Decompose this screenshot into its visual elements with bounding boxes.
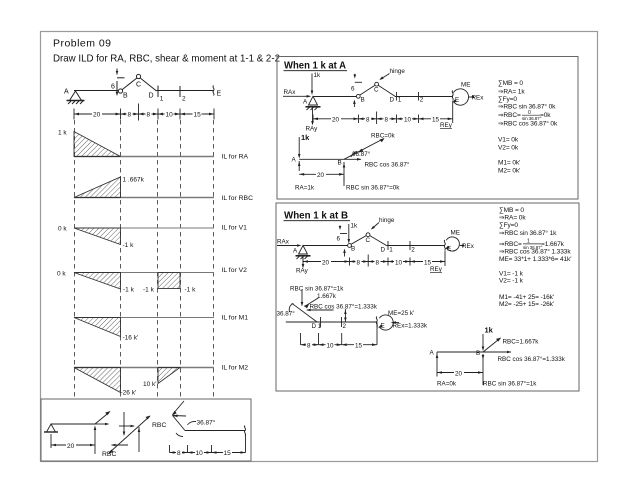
svg-text:⇒RBC=: ⇒RBC= (498, 112, 521, 119)
svg-text:∑Fy=0: ∑Fy=0 (498, 96, 517, 103)
lower free body (segment AB) (299, 137, 384, 186)
svg-text:When 1 k at B: When 1 k at B (284, 210, 348, 222)
svg-text:8: 8 (357, 259, 361, 266)
svg-text:6: 6 (337, 236, 341, 243)
svg-text:⇒RA= 0k: ⇒RA= 0k (499, 215, 526, 222)
svg-text:B: B (476, 350, 480, 357)
svg-text:20: 20 (93, 112, 101, 119)
svg-text:1k: 1k (314, 72, 322, 79)
link C-D (140, 78, 156, 91)
main dim labels (92, 111, 202, 119)
middle free body (segment D-E with link) (286, 290, 399, 345)
svg-text:∑MB = 0: ∑MB = 0 (499, 207, 524, 214)
hinge circle C (136, 74, 140, 78)
svg-text:36.87°: 36.87° (197, 419, 216, 427)
IL for RA (74, 156, 214, 158)
beam diagram (277, 223, 462, 268)
dim line (313, 118, 453, 120)
svg-text:E: E (455, 97, 459, 104)
hinge circle B (118, 89, 122, 93)
link B-C (122, 78, 137, 90)
svg-text:D: D (381, 247, 386, 254)
svg-text:M1= 0k': M1= 0k' (498, 160, 520, 167)
dim 6 lower arrow (116, 92, 119, 96)
svg-text:REx=1.333k: REx=1.333k (393, 323, 428, 330)
hinge circles (348, 244, 352, 248)
svg-text:0 k: 0 k (57, 271, 66, 278)
svg-text:RAx: RAx (284, 89, 297, 96)
fraction line: RBC = 1 / sin36.87 = 1.667k (499, 239, 565, 250)
1k load at B (348, 224, 350, 242)
1k load at A (311, 74, 313, 94)
FBD2 arrowheads (109, 416, 151, 454)
svg-text:RBC cos 36.87°: RBC cos 36.87° (365, 161, 410, 169)
bottom-right free body (segment AB) (437, 334, 511, 385)
svg-text:hinge: hinge (379, 217, 395, 224)
svg-text:RBC sin 36.87°=0k: RBC sin 36.87°=0k (346, 184, 400, 192)
svg-text:RBC cos 36.87°=1.333k: RBC cos 36.87°=1.333k (498, 355, 566, 363)
svg-text:A: A (64, 89, 69, 96)
REx arrow line (469, 96, 471, 98)
svg-text:V1= -1 k: V1= -1 k (499, 271, 524, 278)
svg-text:B: B (361, 97, 365, 104)
hinge leader (380, 74, 390, 80)
svg-text:V1= 0k: V1= 0k (498, 137, 519, 144)
svg-text:8: 8 (307, 343, 311, 350)
svg-text:REy: REy (430, 266, 443, 273)
hinge leader (372, 223, 380, 230)
svg-text:36.87°: 36.87° (277, 310, 296, 318)
svg-text:2: 2 (411, 247, 415, 254)
REx arrow line (460, 245, 462, 247)
svg-text:15: 15 (424, 259, 432, 266)
svg-text:8: 8 (147, 112, 151, 119)
svg-text:RAy: RAy (296, 268, 309, 275)
E squiggle (444, 240, 445, 250)
box2 beam labels (277, 217, 475, 275)
hinge circles (356, 94, 360, 98)
svg-text:10: 10 (395, 259, 403, 266)
box1 FBD labels (292, 133, 410, 192)
svg-text:B: B (351, 246, 355, 253)
svg-text:sin 36.87°: sin 36.87° (523, 245, 543, 250)
fixed-end squiggle at E (213, 86, 214, 96)
dim 6 (354, 74, 356, 77)
svg-text:⇒RA= 1k: ⇒RA= 1k (498, 89, 525, 96)
RAy arrow (302, 257, 304, 267)
dim 6 upper arrow (116, 71, 119, 75)
svg-text:1 k: 1 k (58, 130, 67, 137)
svg-text:hinge: hinge (390, 68, 406, 75)
REy extension (452, 101, 454, 123)
svg-text:IL for M2: IL for M2 (222, 365, 249, 372)
svg-text:RA=1k: RA=1k (295, 185, 315, 192)
svg-text:RBC sin 36.87°=1k: RBC sin 36.87°=1k (290, 285, 344, 293)
svg-text:IL for M1: IL for M1 (222, 315, 249, 322)
FBD1: left segment with pin (44, 413, 109, 455)
dashed construction lines (75, 120, 214, 398)
svg-text:-1 k: -1 k (185, 287, 197, 294)
svg-text:2: 2 (343, 323, 347, 330)
section ticks (387, 241, 389, 250)
svg-text:=1.667k: =1.667k (541, 241, 565, 248)
dim 6 (339, 226, 341, 229)
box1 beam labels (284, 68, 485, 133)
svg-text:RBC: RBC (102, 451, 116, 458)
svg-text:-26 k': -26 k' (121, 390, 137, 397)
svg-text:1k: 1k (485, 326, 494, 335)
svg-text:10: 10 (166, 112, 174, 119)
svg-text:RBC cos 36.87°=1.333k: RBC cos 36.87°=1.333k (310, 303, 378, 311)
svg-text:8: 8 (128, 112, 132, 119)
svg-text:sin 36.87°: sin 36.87° (522, 116, 542, 121)
svg-text:-16 k': -16 k' (123, 335, 139, 342)
svg-text:15: 15 (224, 450, 232, 457)
svg-text:8: 8 (366, 116, 370, 123)
svg-text:B: B (123, 93, 128, 100)
svg-text:RBC: RBC (152, 422, 166, 429)
box2 right-FBD arrowheads (436, 338, 512, 374)
svg-text:2: 2 (182, 96, 186, 103)
equations column box1 (498, 80, 558, 175)
main dim arrowheads (74, 113, 214, 116)
main dimension line (74, 104, 214, 121)
svg-text:M1= -41+ 25= -16k': M1= -41+ 25= -16k' (499, 294, 554, 301)
svg-text:-1 k: -1 k (123, 287, 135, 294)
RAx arrow (277, 245, 300, 247)
svg-text:M2= 0k': M2= 0k' (498, 168, 520, 175)
svg-text:8: 8 (177, 450, 181, 457)
dim line (303, 261, 445, 263)
svg-text:8: 8 (376, 259, 380, 266)
svg-text:0 k: 0 k (58, 226, 67, 233)
svg-text:15: 15 (355, 343, 363, 350)
svg-text:IL for V2: IL for V2 (222, 267, 248, 274)
fraction line: RBC = 0 / sin36.87 = 0k (498, 110, 551, 121)
svg-text:-1 k: -1 k (143, 287, 155, 294)
svg-text:6: 6 (351, 86, 355, 93)
svg-text:IL for RBC: IL for RBC (222, 195, 254, 202)
ME moment arc (453, 89, 468, 105)
support A (299, 246, 308, 255)
svg-text:20: 20 (322, 259, 330, 266)
beam diagram (283, 74, 471, 125)
box2 mid-FBD arrowheads (301, 302, 397, 346)
svg-text:M2= -25+ 15= -26k': M2= -25+ 15= -26k' (499, 301, 554, 308)
equations column box2 (499, 207, 571, 308)
svg-text:C: C (366, 237, 371, 244)
svg-text:Draw ILD for RA, RBC, shear &: Draw ILD for RA, RBC, shear & moment at … (53, 53, 280, 65)
box1 beam arrowheads (307, 75, 475, 126)
IL for M1 (74, 317, 214, 319)
svg-text:10: 10 (404, 116, 412, 123)
svg-text:20: 20 (317, 172, 325, 179)
svg-text:D: D (149, 93, 154, 100)
svg-text:15: 15 (194, 112, 202, 119)
svg-text:1: 1 (389, 247, 393, 254)
svg-text:-1 k: -1 k (123, 242, 135, 249)
svg-text:20: 20 (332, 116, 340, 123)
beam segment D-E (157, 90, 215, 92)
svg-text:E: E (381, 323, 385, 330)
REy extension (444, 251, 446, 267)
svg-text:RAx: RAx (277, 239, 290, 246)
svg-text:Problem 09: Problem 09 (53, 38, 111, 50)
svg-text:RA=0k: RA=0k (437, 381, 457, 388)
section tick 2 (179, 86, 181, 97)
svg-text:RBC=0k: RBC=0k (371, 133, 395, 140)
svg-text:1k: 1k (351, 223, 359, 230)
dim 6 corner mark (117, 69, 125, 95)
svg-text:1k: 1k (301, 133, 310, 142)
svg-text:ME: ME (451, 230, 460, 237)
svg-text:∑Fy=0: ∑Fy=0 (499, 222, 518, 229)
svg-text:1.667k: 1.667k (317, 293, 337, 300)
svg-text:REx: REx (462, 243, 475, 250)
svg-text:REx: REx (472, 95, 485, 102)
RAy arrow (312, 108, 314, 124)
ME moment arc (446, 237, 459, 251)
svg-text:D 1: D 1 (312, 323, 322, 330)
FBD2: link BC (109, 412, 150, 453)
svg-text:36.87°: 36.87° (352, 150, 371, 158)
svg-text:⇒RBC=: ⇒RBC= (499, 241, 522, 248)
FBD3 arrowheads (170, 411, 246, 454)
svg-text:C: C (136, 82, 141, 89)
svg-text:ME: ME (461, 82, 470, 89)
box2 beam arrowheads (297, 226, 464, 269)
svg-text:1 .667k: 1 .667k (123, 177, 145, 184)
beam segment A-B (74, 90, 118, 92)
svg-text:6: 6 (111, 84, 115, 91)
IL for V1 (74, 227, 214, 229)
IL for RBC (74, 197, 214, 199)
svg-text:⇒RBC sin 36.87° 1k: ⇒RBC sin 36.87° 1k (499, 229, 557, 237)
section ticks (396, 92, 398, 101)
svg-text:1: 1 (160, 96, 164, 103)
outer slide border (41, 32, 598, 462)
svg-text:∑MB = 0: ∑MB = 0 (498, 80, 523, 87)
svg-text:RBC sin 36.87°=1k: RBC sin 36.87°=1k (483, 380, 537, 388)
svg-text:D: D (390, 97, 395, 104)
E squiggle (452, 91, 453, 101)
svg-text:ME=25 k': ME=25 k' (388, 310, 414, 317)
svg-text:2: 2 (420, 97, 424, 104)
svg-text:V2= 0k: V2= 0k (498, 145, 519, 152)
FBD3: right segment with 36.87 (170, 401, 246, 453)
svg-text:20: 20 (67, 443, 75, 450)
svg-text:ME= 33*1+ 1.333*6= 41k': ME= 33*1+ 1.333*6= 41k' (499, 256, 571, 263)
svg-text:RAy: RAy (306, 126, 319, 133)
svg-text:10: 10 (327, 343, 335, 350)
IL for M2 (74, 367, 214, 369)
svg-text:B: B (338, 160, 342, 167)
pin support at A (67, 91, 85, 104)
svg-text:IL for V1: IL for V1 (222, 225, 248, 232)
svg-text:1: 1 (398, 97, 402, 104)
svg-text:=0k: =0k (540, 112, 551, 119)
svg-text:RBC=1.667k: RBC=1.667k (503, 339, 540, 346)
svg-text:E: E (217, 91, 222, 98)
svg-text:C: C (374, 87, 379, 94)
svg-text:20: 20 (455, 370, 463, 377)
box2 right-FBD labels (430, 326, 566, 388)
support A (309, 96, 318, 105)
box1 FBD arrowheads (298, 138, 385, 175)
svg-text:E: E (447, 246, 451, 253)
svg-text:When 1 k at A: When 1 k at A (284, 60, 346, 72)
svg-text:10 k': 10 k' (143, 381, 157, 388)
svg-text:8: 8 (385, 116, 389, 123)
svg-text:10: 10 (196, 450, 204, 457)
section tick 1 (157, 86, 159, 98)
svg-text:15: 15 (432, 116, 440, 123)
svg-text:V2= -1 k: V2= -1 k (499, 278, 524, 285)
box2 mid-FBD labels (277, 285, 428, 350)
svg-text:REy: REy (440, 122, 453, 129)
RAx arrow (283, 95, 310, 97)
IL for V2 (74, 272, 214, 274)
FBD1 arrowheads (51, 411, 111, 446)
svg-text:IL for RA: IL for RA (222, 154, 249, 161)
